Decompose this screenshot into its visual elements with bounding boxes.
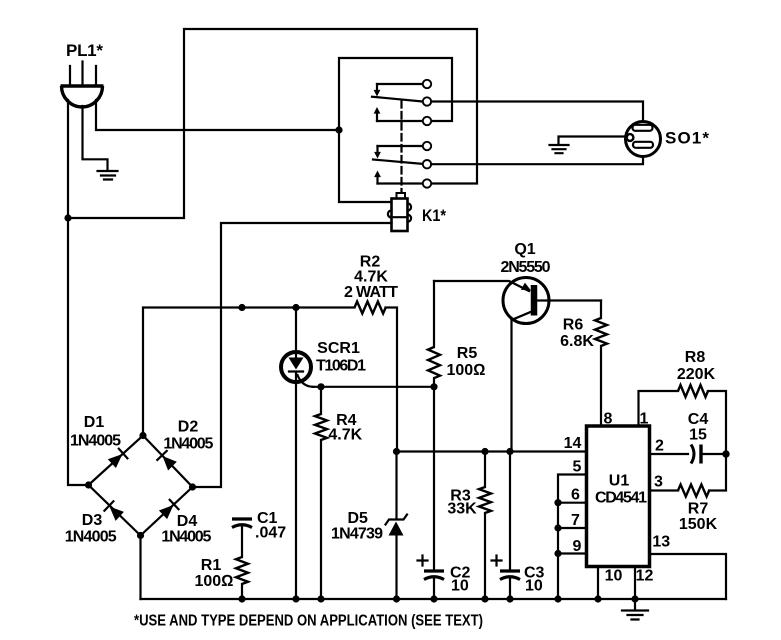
svg-text:6: 6 xyxy=(571,487,580,504)
svg-text:15: 15 xyxy=(689,427,707,444)
svg-text:1N4005: 1N4005 xyxy=(65,529,117,546)
svg-text:R1: R1 xyxy=(201,557,222,574)
svg-text:CD4541: CD4541 xyxy=(595,490,647,507)
wire ground rail xyxy=(141,598,727,600)
ground (AC plug) xyxy=(83,106,118,180)
node bridge left vertex xyxy=(85,481,92,488)
wire SCR gate node to R5 bottom xyxy=(313,386,434,388)
relay K1 contact set A xyxy=(372,80,431,125)
node rail/R4 junction xyxy=(317,595,324,602)
svg-text:13: 13 xyxy=(652,534,670,551)
svg-text:U1: U1 xyxy=(609,473,630,490)
svg-text:33K: 33K xyxy=(447,501,477,518)
ground (U1 pin 12) xyxy=(622,611,648,620)
svg-text:T106D1: T106D1 xyxy=(316,358,366,375)
svg-text:4.7K: 4.7K xyxy=(328,427,362,444)
diode D3 xyxy=(104,501,124,521)
resistor R8 xyxy=(678,385,708,397)
diode D4 xyxy=(159,500,179,519)
wire PL1 neutral pin down to bridge left vertex xyxy=(68,100,89,485)
node pin7 junction xyxy=(554,524,561,531)
svg-text:R7: R7 xyxy=(688,501,709,518)
wire positive rail from bridge + vertex to R2 xyxy=(143,308,355,436)
diode D1 xyxy=(108,449,128,468)
resistor R4 xyxy=(315,387,327,599)
wire timing node down to R7 xyxy=(709,454,726,491)
resistor R6 xyxy=(595,301,607,347)
node gate/R4 junction xyxy=(317,383,324,390)
svg-text:4.7K: 4.7K xyxy=(354,269,388,286)
node VDD/emitter/C3 junction xyxy=(506,448,513,455)
node rail/R3 junction xyxy=(481,595,488,602)
svg-text:2N5550: 2N5550 xyxy=(501,259,551,276)
svg-text:2: 2 xyxy=(655,438,664,455)
node gate/R5 junction xyxy=(430,383,437,390)
svg-text:D3: D3 xyxy=(82,512,103,529)
wire R8 to timing node xyxy=(708,391,726,454)
node bridge - vertex xyxy=(137,532,144,539)
wire U1 pin 2 to C4 xyxy=(650,453,689,455)
wire U1 pin 3 to R7 xyxy=(650,489,679,491)
IC U1 CD4541 xyxy=(587,426,650,567)
wire Q1 collector to R6 xyxy=(537,299,601,301)
resistor R1 xyxy=(236,557,248,599)
wire PL1 line pin to relay contact frame xyxy=(96,100,339,130)
wire U1 pin 13 to rail right end xyxy=(650,554,727,599)
rectifier bridge frame xyxy=(89,436,193,536)
wire U1 pins 5,6,7,9 tie-down xyxy=(558,475,587,600)
wire VDD line to U1 pin 14 xyxy=(397,450,587,452)
node rail/R1 junction xyxy=(238,595,245,602)
svg-text:1N4005: 1N4005 xyxy=(161,529,211,546)
node bridge right vertex xyxy=(189,483,196,490)
node timing node C4/R8/R7 xyxy=(722,450,729,457)
node VDD/D5 junction xyxy=(393,448,400,455)
node pin6 junction xyxy=(554,499,561,506)
svg-text:3: 3 xyxy=(654,474,663,491)
svg-text:*USE AND TYPE DEPEND ON APPLIC: *USE AND TYPE DEPEND ON APPLICATION (SEE… xyxy=(134,613,483,630)
svg-text:220K: 220K xyxy=(677,366,716,383)
svg-text:K1*: K1* xyxy=(422,206,446,225)
resistor R3 xyxy=(479,452,491,600)
node rail/SCR anode junction xyxy=(292,304,299,311)
thyristor SCR1 xyxy=(281,308,313,600)
relay K1 actuator dashed link xyxy=(400,101,402,193)
node rail/SCR cathode junction xyxy=(292,595,299,602)
resistor R5 xyxy=(428,281,440,387)
node rail/C2 junction xyxy=(430,595,437,602)
svg-text:7: 7 xyxy=(571,512,580,529)
wire R6 to U1 pin 8 xyxy=(600,346,602,426)
capacitor C1 xyxy=(232,519,252,557)
svg-text:10: 10 xyxy=(451,578,469,595)
svg-text:.047: .047 xyxy=(255,525,286,542)
svg-text:D5: D5 xyxy=(347,510,368,527)
relay K1 contact set B xyxy=(373,142,431,188)
wire relay contact frame (NC stub A, frame top, left edge, to coil top) xyxy=(339,58,452,202)
node rail/D5 junction xyxy=(393,595,400,602)
svg-text:12: 12 xyxy=(636,568,654,585)
node rail/pin9-column junction xyxy=(554,595,561,602)
node junction line/contact-frame xyxy=(335,126,342,133)
node bridge + vertex xyxy=(139,432,146,439)
wire top loop: junction to top rail over relay frame down to contact B NC xyxy=(68,29,477,218)
diode D2 xyxy=(157,451,177,471)
svg-text:D1: D1 xyxy=(84,414,105,431)
svg-text:PL1*: PL1* xyxy=(66,41,103,60)
wire U1 pin 1 up to R8 xyxy=(639,391,679,426)
svg-text:14: 14 xyxy=(564,435,582,452)
node pin9 junction xyxy=(554,550,561,557)
wire U1 pin 10 to rail xyxy=(597,567,599,600)
node rail/C1 junction xyxy=(238,304,245,311)
svg-text:5: 5 xyxy=(573,459,582,476)
wire R5/C2 column xyxy=(433,387,435,570)
node rail/C3 junction xyxy=(506,595,513,602)
svg-text:1N4005: 1N4005 xyxy=(70,433,121,450)
wire R2 right end down to VDD line xyxy=(386,308,398,452)
svg-text:100Ω: 100Ω xyxy=(195,573,234,590)
receptacle SO1 xyxy=(626,122,661,157)
transistor Q1 xyxy=(434,278,549,324)
wire K1 coil to bridge right vertex xyxy=(193,223,392,487)
resistor R2 xyxy=(355,302,386,314)
svg-text:C4: C4 xyxy=(688,411,709,428)
resistor R7 xyxy=(678,485,709,497)
node junction plug/top-loop xyxy=(64,214,71,221)
node VDD/R3 junction xyxy=(481,448,488,455)
svg-text:2 WATT: 2 WATT xyxy=(344,284,398,301)
connector PL1 (AC plug) xyxy=(61,62,104,108)
relay coil K1 xyxy=(388,193,411,231)
wire bridge - vertex to ground rail xyxy=(139,536,141,600)
svg-text:1N4005: 1N4005 xyxy=(163,436,213,453)
svg-text:R6: R6 xyxy=(563,317,584,334)
wire contact A common to SO1 hot xyxy=(431,102,643,123)
svg-text:D2: D2 xyxy=(178,419,199,436)
svg-text:8: 8 xyxy=(604,411,613,428)
ground (SO1) xyxy=(550,137,628,154)
wire U1 pin 12 to ground xyxy=(634,567,636,610)
svg-text:10: 10 xyxy=(525,578,543,595)
svg-text:D4: D4 xyxy=(177,513,198,530)
svg-text:9: 9 xyxy=(573,538,582,555)
wire contact B common to SO1 neutral xyxy=(431,157,643,164)
svg-text:1: 1 xyxy=(640,411,649,428)
node rail/pin10 junction xyxy=(594,595,601,602)
svg-text:6.8K: 6.8K xyxy=(560,333,594,350)
svg-text:R5: R5 xyxy=(457,345,478,362)
svg-text:100Ω: 100Ω xyxy=(447,362,486,379)
wire Q1 emitter down to VDD line xyxy=(510,319,512,452)
svg-text:SCR1: SCR1 xyxy=(317,340,360,357)
capacitor C3 xyxy=(492,452,521,600)
zener diode D5 xyxy=(386,452,408,600)
capacitor C4 xyxy=(691,445,726,464)
svg-text:Q1: Q1 xyxy=(514,241,535,258)
svg-text:SO1*: SO1* xyxy=(665,129,709,148)
node rail/pin12 junction xyxy=(631,595,638,602)
svg-text:1N4739: 1N4739 xyxy=(331,526,383,543)
capacitor C2 xyxy=(418,556,445,600)
svg-text:R8: R8 xyxy=(685,349,706,366)
svg-text:150K: 150K xyxy=(679,516,718,533)
svg-text:10: 10 xyxy=(605,568,623,585)
